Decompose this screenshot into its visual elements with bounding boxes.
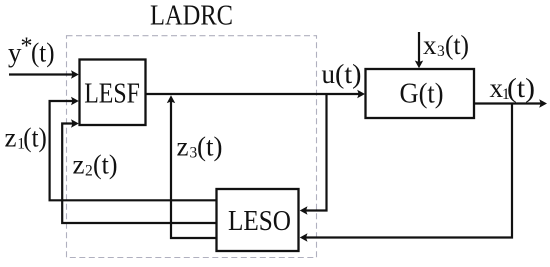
svg-text:(t): (t) xyxy=(507,73,535,103)
svg-text:z: z xyxy=(73,150,85,180)
wire y* input into LESF xyxy=(9,73,74,75)
svg-text:LADRC: LADRC xyxy=(150,1,233,32)
block LESO xyxy=(217,189,299,251)
svg-text:LESF: LESF xyxy=(84,78,140,109)
wire x1 feedback branch into LESO right xyxy=(304,104,512,238)
svg-text:(t): (t) xyxy=(445,30,469,60)
wire u branch down into LESO right xyxy=(304,94,327,211)
wire u: LESF output to G(t) input xyxy=(146,93,361,95)
svg-text:3: 3 xyxy=(437,43,445,60)
svg-text:2: 2 xyxy=(85,163,93,180)
svg-text:(t): (t) xyxy=(197,132,223,162)
svg-text:z: z xyxy=(5,122,17,152)
svg-text:(t): (t) xyxy=(31,38,55,68)
wire z3: LESO left up into u line xyxy=(171,100,217,238)
svg-text:G(t): G(t) xyxy=(400,78,444,109)
block G(t) xyxy=(366,69,475,118)
wire z1: LESO left to LESF input 2 xyxy=(50,101,217,200)
svg-text:(t): (t) xyxy=(335,59,362,89)
svg-text:x: x xyxy=(423,30,437,60)
LADRC dashed boundary box xyxy=(67,36,317,258)
wire z2: LESO left to LESF input 3 xyxy=(62,124,216,224)
wire x3 disturbance into G(t) top xyxy=(418,32,420,64)
block LESF xyxy=(80,60,146,126)
svg-text:z: z xyxy=(177,132,189,162)
wire x1: G(t) output to right edge xyxy=(474,102,542,104)
svg-text:u: u xyxy=(322,59,336,89)
svg-text:LESO: LESO xyxy=(228,206,291,237)
svg-text:(t): (t) xyxy=(23,122,47,152)
svg-text:(t): (t) xyxy=(93,150,118,180)
